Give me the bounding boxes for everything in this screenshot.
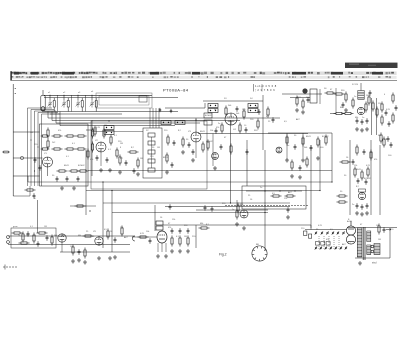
- converter can box: [310, 89, 317, 103]
- resistor R84: [306, 157, 308, 168]
- resistor R67: [380, 133, 382, 144]
- capacitor C43: [357, 178, 360, 184]
- svg-text:ECH42: ECH42: [205, 115, 212, 117]
- wire margin to RF box 3: [13, 175, 39, 177]
- valve V5 FM: [357, 107, 364, 114]
- wire left bundle top 1: [28, 107, 53, 109]
- resistor R90: [72, 245, 74, 256]
- RF unit enclosure box: [40, 124, 89, 186]
- resistor R1b: [41, 148, 50, 150]
- capacitor C33: [46, 235, 49, 241]
- wire link corner: [204, 103, 206, 108]
- resistor R30: [372, 101, 374, 112]
- ground: [83, 260, 87, 264]
- ground: [97, 256, 101, 260]
- svg-text:10k: 10k: [146, 231, 149, 233]
- wire fb rail: [195, 225, 197, 248]
- IF transformer can S4b: [248, 109, 258, 113]
- output transformer T1: [156, 221, 163, 230]
- wire vertical rail D: [331, 133, 333, 182]
- capacitor C14: [173, 140, 176, 146]
- wire L1 top lead: [53, 98, 55, 101]
- wire fan corner 3: [55, 112, 57, 124]
- ground: [118, 170, 122, 174]
- wire converter bus 2: [290, 97, 310, 99]
- ground: [344, 108, 348, 112]
- osc coil element 4: [148, 159, 155, 163]
- ground: [358, 261, 362, 265]
- capacitor C30: [294, 144, 297, 150]
- ground: [360, 212, 364, 216]
- node margin tick 2: [15, 93, 16, 94]
- ground: [77, 258, 81, 262]
- wire bus to PSU top: [165, 206, 290, 208]
- wire L3 bottom lead: [81, 107, 83, 112]
- switch contact SW8: [320, 246, 322, 250]
- magic eye target rect: [359, 189, 366, 192]
- wire switch tie: [338, 236, 340, 250]
- svg-text:ECH42: ECH42: [322, 136, 329, 138]
- oscillator coil pack box: [143, 128, 162, 178]
- svg-text:68k: 68k: [240, 204, 243, 206]
- resistor R1: [52, 135, 63, 137]
- capacitor C56: [246, 149, 249, 155]
- resistor R0a: [47, 128, 49, 139]
- coil L4: [95, 101, 97, 108]
- wire L4 bottom lead: [95, 107, 97, 112]
- resistor R43: [116, 148, 118, 159]
- wire tuner bottom bus: [42, 111, 178, 113]
- ground: [295, 108, 299, 112]
- wire long bus HT: [52, 120, 240, 122]
- wire right rail 3: [379, 145, 381, 215]
- capacitor C21: [258, 109, 261, 115]
- resistor R18: [202, 142, 204, 153]
- resistor R93: [325, 92, 336, 94]
- ground: [360, 128, 364, 132]
- resistor R21: [257, 119, 259, 130]
- resistor R16: [167, 135, 169, 146]
- wire long bus L3: [86, 190, 320, 192]
- ground: [60, 186, 64, 190]
- resistor R27: [343, 112, 354, 114]
- capacitor C49: [383, 227, 386, 233]
- resistor R10: [69, 170, 80, 172]
- wire dial drop: [149, 108, 151, 128]
- IF transformer can S2b: [175, 121, 185, 125]
- capacitor C35: [204, 205, 207, 211]
- ground: [164, 254, 168, 258]
- valve V11 magic eye: [358, 192, 365, 199]
- ground: [191, 158, 195, 162]
- ground: [136, 172, 140, 176]
- capacitor C59: [390, 142, 393, 148]
- capacitor C57: [299, 165, 302, 171]
- svg-text:2n: 2n: [18, 235, 20, 237]
- resistor R35: [392, 113, 394, 124]
- svg-text:1M: 1M: [140, 158, 143, 160]
- coil L1: [53, 101, 55, 108]
- wire left bundle top 3: [35, 110, 57, 112]
- resistor R51: [237, 203, 239, 214]
- resistor R49: [271, 195, 282, 197]
- wire det bus: [268, 132, 332, 134]
- trimmer capacitor C1: [48, 100, 53, 108]
- ground: [181, 150, 185, 154]
- resistor R65: [199, 227, 210, 229]
- capacitor C40: [187, 228, 190, 234]
- resistor R33: [381, 115, 383, 126]
- wire left bundle top 2: [31, 109, 54, 111]
- valve V9 driver: [95, 237, 103, 245]
- wire switch tie: [323, 236, 325, 250]
- wire L1 bottom lead: [53, 107, 55, 112]
- output terminals: [371, 245, 374, 253]
- capacitor C18: [245, 127, 248, 133]
- resistor R83: [291, 160, 293, 171]
- margin trimmer circle: [20, 156, 23, 159]
- voltage table legend: [254, 84, 277, 92]
- capacitor C60: [352, 159, 355, 165]
- wire vertical rail I: [246, 140, 248, 186]
- resistor R70: [367, 167, 369, 178]
- wire dashed link: [225, 205, 308, 207]
- svg-text:1n: 1n: [362, 117, 364, 119]
- svg-text:1•2•3 4 5 6 8: 1•2•3 4 5 6 8: [255, 84, 277, 88]
- speaker connector block: [374, 244, 380, 255]
- capacitor C34: [169, 204, 172, 210]
- ground: [298, 175, 302, 179]
- capacitor C62: [37, 241, 40, 247]
- wire switch tie: [328, 236, 330, 250]
- resistor R20: [239, 123, 241, 134]
- wire tuner to IF link: [165, 107, 205, 109]
- resistor R54: [33, 233, 35, 244]
- valve V2 mixer: [96, 142, 106, 152]
- resistor R0b: [47, 139, 49, 150]
- junction: [85, 170, 86, 171]
- wire vertical rail G: [310, 145, 312, 228]
- resistor R45: [286, 135, 288, 146]
- wire switch tie: [318, 236, 320, 250]
- resistor R87: [383, 137, 385, 148]
- ground: [213, 166, 217, 170]
- svg-text:1n: 1n: [92, 236, 94, 238]
- svg-text:12k: 12k: [378, 103, 381, 105]
- capacitor C51: [133, 168, 136, 174]
- capacitor C58: [363, 149, 366, 155]
- wire V10 pin1: [157, 243, 159, 252]
- ground: [355, 127, 359, 131]
- ground: [355, 211, 359, 215]
- resistor R8: [91, 142, 93, 153]
- dial drive nested routing box outer: [96, 93, 152, 108]
- node margin tick 1: [15, 88, 16, 89]
- output stage enclosure: [242, 186, 306, 209]
- resistor R96: [365, 102, 367, 113]
- capacitor C61: [33, 193, 36, 199]
- wire PSU top bus: [347, 227, 397, 229]
- wire margin bottom link: [13, 195, 30, 197]
- svg-text:47k: 47k: [374, 159, 377, 161]
- wire vertical rail A: [85, 150, 87, 215]
- valve V3 oscillator: [191, 132, 201, 142]
- wire long bus L2: [28, 181, 332, 183]
- svg-text:eind: eind: [372, 263, 377, 265]
- svg-text:1M: 1M: [120, 143, 123, 145]
- junction tuner 3: [77, 95, 78, 96]
- wire L3 top lead: [81, 98, 83, 101]
- junction: [294, 190, 295, 191]
- junction: [264, 212, 265, 213]
- resistor R14b: [110, 135, 112, 146]
- resistor R23: [225, 106, 227, 117]
- wire R66 up: [236, 200, 238, 211]
- capacitor C37: [149, 238, 152, 244]
- wire V1 cathode down: [47, 167, 49, 176]
- svg-text:1n: 1n: [232, 209, 234, 211]
- capacitor C23: [361, 119, 364, 125]
- wire PSU right rail: [389, 228, 391, 258]
- capacitor C54: [171, 162, 174, 168]
- resistor R34: [392, 93, 394, 104]
- junction: [264, 190, 265, 191]
- wire fan corner 4: [59, 112, 61, 126]
- resistor R3: [76, 135, 87, 137]
- svg-text:68k: 68k: [78, 235, 81, 237]
- svg-text:12k: 12k: [354, 165, 357, 167]
- capacitor C50: [125, 160, 128, 166]
- svg-text:10k: 10k: [376, 225, 379, 227]
- resistor R61: [138, 236, 149, 238]
- wire left margin vertical bus: [12, 84, 14, 196]
- wire C2 stem: [63, 95, 65, 100]
- svg-text:1M: 1M: [98, 151, 101, 153]
- resistor R41: [87, 149, 89, 160]
- valve V4 IF amplifier: [225, 113, 237, 125]
- capacitor C67: [39, 165, 42, 171]
- resistor R9: [57, 170, 68, 172]
- wire IF divider rail: [262, 95, 264, 150]
- svg-text:2n: 2n: [352, 204, 354, 206]
- resistor R26: [334, 112, 345, 114]
- osc coil element 2: [148, 141, 155, 145]
- wire long bus heater: [56, 122, 200, 124]
- valve V1 RF amplifier: [43, 157, 53, 167]
- valve V14 converter: [302, 88, 307, 93]
- AM detector boxes: [204, 113, 212, 125]
- resistor R92: [302, 99, 304, 110]
- header tube complement text strip row 1: [11, 72, 394, 75]
- ground: [301, 110, 305, 114]
- wire V3 down: [195, 142, 197, 158]
- IF transformer can S2a: [161, 121, 171, 125]
- ground: [165, 170, 169, 174]
- svg-text:2n: 2n: [218, 123, 220, 125]
- trimmer capacitor C4: [90, 100, 95, 108]
- junction: [108, 120, 109, 121]
- resistor R29: [368, 95, 370, 106]
- capacitor C44: [365, 179, 368, 185]
- capacitor C15: [188, 142, 191, 148]
- black bar top right corner: [345, 63, 398, 68]
- junction tuner 2: [63, 95, 64, 96]
- resistor R53: [22, 232, 24, 243]
- wire tuner bus 2: [44, 97, 178, 99]
- capacitor C45: [356, 203, 359, 209]
- wire mixer inner bus: [92, 131, 143, 133]
- junction: [279, 190, 280, 191]
- ground: [365, 211, 369, 215]
- switch contact SW11: [335, 246, 337, 250]
- resistor R6: [76, 148, 87, 150]
- capacitor C31: [310, 145, 313, 151]
- junction: [230, 202, 231, 203]
- wire FM rail 2: [376, 98, 378, 135]
- junction: [349, 161, 350, 162]
- resistor R63: [179, 236, 181, 247]
- relay block in dial box: [139, 96, 147, 102]
- capacitor C68: [159, 108, 161, 112]
- svg-text:12k: 12k: [120, 227, 123, 229]
- resistor R86: [370, 150, 372, 161]
- wire converter bus: [282, 93, 322, 95]
- capacitor C66: [34, 157, 37, 163]
- svg-text:47k: 47k: [90, 159, 93, 161]
- capacitor C24: [366, 118, 369, 124]
- svg-text:ECH42: ECH42: [206, 141, 213, 143]
- junction: [370, 151, 371, 152]
- resistor R76: [137, 158, 139, 169]
- resistor R7: [91, 128, 93, 139]
- ground: [156, 254, 160, 258]
- capacitor C10: [66, 176, 69, 182]
- ground: [108, 168, 112, 172]
- resistor R2: [65, 135, 76, 137]
- resistor R58: [83, 235, 94, 237]
- wire V8 down: [61, 243, 63, 253]
- resistor R5: [65, 148, 76, 150]
- resistor R4: [52, 148, 63, 150]
- svg-text:gram: gram: [13, 226, 18, 228]
- resistor R19: [221, 123, 223, 134]
- wire L2 top lead: [67, 98, 69, 101]
- resistor R79: [166, 153, 168, 164]
- wire det rail 2: [302, 133, 304, 158]
- AF sub-box: [11, 228, 56, 248]
- switch contact SW2: [321, 231, 323, 235]
- capacitor C20: [236, 106, 239, 112]
- mains transformer T2 core: [363, 227, 365, 260]
- resistor R71: [337, 195, 348, 197]
- wire FM left boundary: [335, 88, 337, 113]
- svg-text:ECH42: ECH42: [78, 165, 85, 167]
- resistor R22: [267, 107, 269, 118]
- header left border bar: [10, 71, 11, 80]
- wire long bus L1: [88, 170, 332, 172]
- resistor R78: [119, 155, 121, 166]
- ground: [301, 158, 305, 162]
- ground: [108, 256, 112, 260]
- resistor R50: [285, 195, 296, 197]
- wire L4 top lead: [95, 98, 97, 101]
- wire left bundle top 5: [42, 113, 61, 115]
- wire left bundle 2: [30, 110, 32, 187]
- transformer T2 primary winding: [357, 228, 362, 257]
- wire PSU bottom bus: [355, 257, 390, 259]
- capacitor C55: [220, 144, 223, 150]
- wire margin to RF box 1: [13, 131, 39, 133]
- svg-text:10k: 10k: [26, 235, 29, 237]
- wire switch tie: [333, 236, 335, 250]
- capacitor C32: [27, 231, 30, 237]
- ground: [72, 186, 76, 190]
- resistor R15: [128, 151, 139, 153]
- junction tuner 1: [49, 95, 50, 96]
- resistor R65b: [121, 226, 123, 237]
- resistor R11: [78, 170, 89, 172]
- resistor R59: [107, 229, 109, 240]
- resistor R12: [94, 126, 96, 137]
- resistor R31: [376, 107, 378, 118]
- ground: [71, 259, 75, 263]
- diode V6: [276, 147, 282, 153]
- svg-text:¦ 2 3 7 8 0 6: ¦ 2 3 7 8 0 6: [255, 88, 275, 92]
- wire long bus 4: [60, 125, 175, 127]
- svg-text:1n: 1n: [260, 187, 262, 189]
- svg-text:1M: 1M: [30, 132, 33, 134]
- input connector: [133, 236, 136, 241]
- junction: [331, 181, 332, 182]
- coil L3: [81, 101, 83, 108]
- svg-text:FC124: FC124: [352, 84, 359, 86]
- wire long bus L5: [112, 212, 268, 214]
- trimmer capacitor C2: [62, 100, 67, 108]
- wire vertical rail H: [230, 120, 232, 203]
- transformer T2 secondary 1: [367, 231, 371, 242]
- wire T1 feed: [154, 205, 156, 231]
- resistor R55: [37, 232, 48, 234]
- wire HT to power: [163, 224, 311, 226]
- wire switch bus: [305, 229, 347, 231]
- wire tuner top bus: [44, 94, 152, 96]
- capacitor C25: [385, 110, 388, 116]
- svg-text:PT008A–84: PT008A–84: [163, 88, 189, 93]
- IF transformer can S1b: [104, 131, 114, 135]
- wire osc pack spine: [151, 137, 153, 168]
- wire long bus AVC: [48, 117, 280, 119]
- resistor R75: [378, 224, 380, 235]
- ground: [290, 174, 294, 178]
- svg-text:ECH42: ECH42: [364, 178, 371, 180]
- resistor R82: [230, 144, 232, 155]
- capacitor C26: [388, 121, 391, 127]
- wire tuner drop: [57, 95, 59, 111]
- IF transformer can S3b: [208, 109, 218, 113]
- mixer section enclosure: [91, 121, 207, 189]
- wire IF bottom bus: [198, 133, 308, 135]
- valve V10 output pentode: [157, 231, 167, 243]
- switch contact SW6: [342, 231, 344, 235]
- wire dial drop: [158, 108, 160, 128]
- junction: [37, 146, 38, 147]
- wire det rail 1: [286, 133, 288, 160]
- wire L2 left drop: [27, 176, 29, 182]
- resistor R28: [352, 98, 354, 109]
- wire box inner bus: [246, 190, 302, 192]
- resistor R95: [345, 92, 347, 103]
- wire fan corner 2: [51, 112, 53, 121]
